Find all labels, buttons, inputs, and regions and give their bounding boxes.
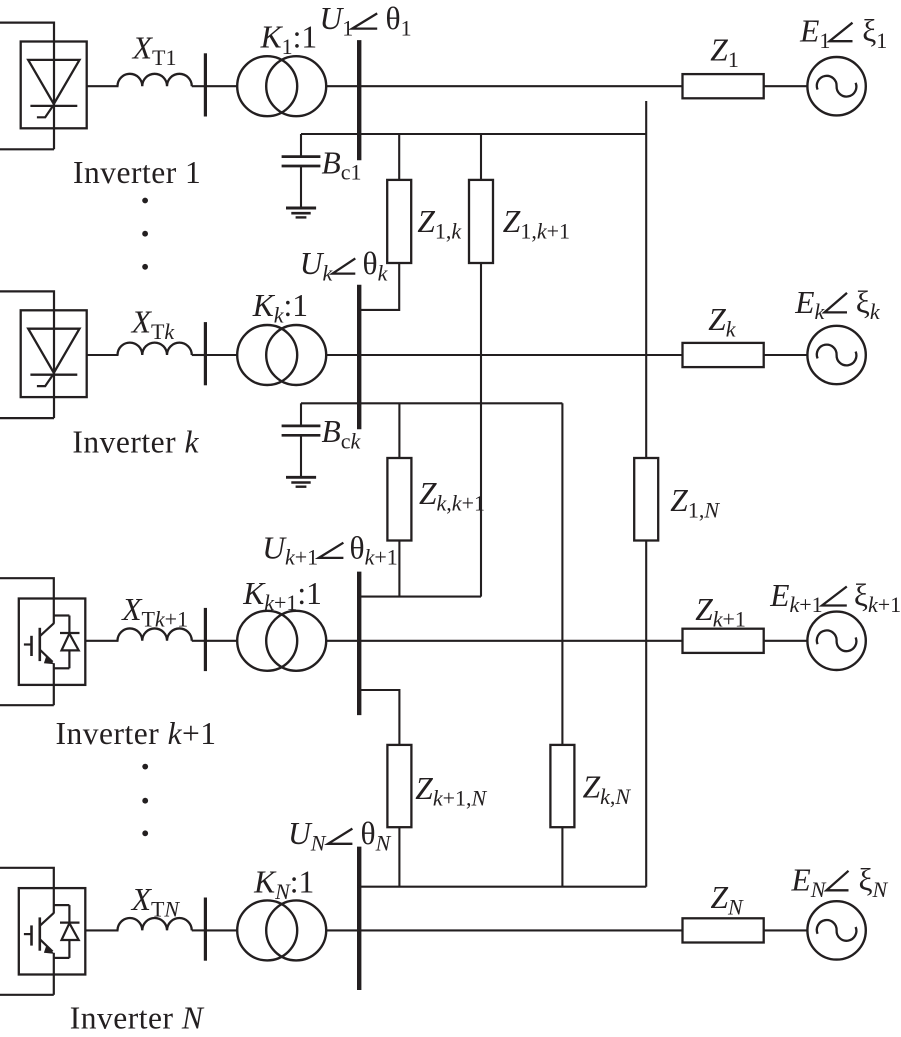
angle symbol (E1) [830,23,853,42]
AC source Ek [807,326,865,384]
wire: Z1 to source E1 [764,85,808,87]
impedance Zk,N box [550,745,574,827]
svg-text:ZN: ZN [711,880,745,919]
wire: inverter k output to reactor [87,354,119,356]
reactor XTk coil [118,343,192,355]
svg-text:EN: EN [791,863,827,902]
wire: ZN to source EN [764,929,808,931]
connection tick bar (row k) [204,322,207,385]
svg-text:Inverter N: Inverter N [70,1000,205,1035]
svg-text:Bc1: Bc1 [322,145,362,184]
wire: Zk to source Ek [764,354,808,356]
connection tick bar (row N) [204,898,207,961]
angle symbol (Ek) [825,293,848,313]
thyristor (inverter 1) [28,60,79,117]
bus UN (busbar) [357,847,361,990]
svg-text:Z1,N: Z1,N [670,483,720,522]
transformer KN (two windings) [237,900,297,960]
svg-text:XTN: XTN [130,882,181,921]
shunt capacitor Bck [300,403,302,426]
inverter N box [19,888,86,974]
anti-parallel diode (inverter k+1) [54,616,80,669]
anti-parallel diode (inverter N) [54,905,80,958]
wire: Z1,N down to row-N sub-bus [645,541,647,887]
wire: Z1,k+1 down to bus Uk+1 jog [480,263,482,597]
svg-text:θk+1: θk+1 [350,530,398,569]
bus Uk+1 (busbar) [357,572,361,716]
wire: transformer KN to bus [326,929,360,931]
wire: transformer K1 to bus [326,85,360,87]
wire: inverter N output to reactor [85,929,118,931]
reactor XTN coil [118,918,192,930]
svg-text:U1: U1 [320,1,354,40]
svg-text:ξ1: ξ1 [862,14,887,53]
impedance Zk+1 box [683,629,764,653]
angle symbol (Ek+1) [822,587,847,606]
impedance Z1,k box [387,180,411,263]
wire: Zk,k+1 down to bus Uk+1 jog [398,541,400,597]
angle symbol (Uk) [333,258,356,273]
wire: jog into bus Uk+1 (connects Zk,k+1 and Z1,k+1) [359,596,481,598]
svg-text:UN: UN [288,816,327,855]
wire: reactor to tick (row Tk+1) [192,640,206,642]
svg-text:θ1: θ1 [386,1,412,40]
wire: transformer Kk to bus [326,354,360,356]
wire: transformer Kk+1 to bus [326,640,360,642]
svg-text:Zk,k+1: Zk,k+1 [419,476,485,515]
connection tick bar (row k+1) [204,608,207,671]
svg-text:Uk: Uk [300,246,334,285]
wire: reactor to tick (row T1) [192,85,206,87]
bus U1 (busbar) [357,40,361,160]
AC source EN [807,901,865,959]
wire: bus to impedance Z1 [359,85,682,87]
ground (Bck) [286,476,316,479]
svg-text:ξN: ξN [859,863,889,902]
wire: inverter k+1 output to reactor [85,640,118,642]
bus Uk (busbar) [357,285,361,430]
svg-text:K1:1: K1:1 [260,20,318,59]
angle symbol (U1) [352,13,377,28]
wire: tick to transformer (row N) [205,929,237,931]
inverter 1 DC-side wire loop [0,23,54,150]
impedance Zk,k+1 box [387,458,411,541]
svg-text:Inverter 1: Inverter 1 [73,155,201,190]
wire: Zk+1,N down to row-N sub-bus [398,827,400,887]
AC source E1 [807,57,865,115]
svg-text:XTk+1: XTk+1 [120,592,188,631]
wire: bus Uk+1 jog down to Zk+1,N [359,690,399,745]
transformer K1 (two windings) [237,56,297,116]
sine symbol inside source EN [817,920,857,941]
svg-text:Bck: Bck [322,414,362,453]
svg-text:ξk+1: ξk+1 [854,578,901,617]
svg-text:Kk:1: Kk:1 [252,288,308,327]
svg-text:Z1: Z1 [710,32,739,71]
connection tick bar (row 1) [204,53,207,116]
svg-text:KN:1: KN:1 [253,864,314,903]
inverter k DC-side wire loop [0,291,54,418]
inverter k box [21,310,87,397]
svg-text:Kk+1:1: Kk+1:1 [242,576,322,615]
ellipsis dots between inverter 1 and inverter k [142,198,148,204]
svg-text:Zk+1,N: Zk+1,N [415,771,487,810]
svg-text:E1: E1 [799,14,830,53]
sine symbol inside source Ek+1 [817,630,857,651]
IGBT (inverter k+1) [24,623,55,664]
wire: reactor to tick (row Tk) [192,354,206,356]
svg-text:Ek+1: Ek+1 [769,578,822,617]
reactor XT1 coil [118,74,192,86]
wire: inverter 1 output to reactor [87,85,119,87]
wire: reactor to tick (row TN) [192,929,206,931]
wire: Zk+1 to source Ek+1 [764,640,808,642]
ellipsis dots between inverter k+1 and inverter N [142,764,148,770]
svg-text:ξk: ξk [856,285,881,324]
angle symbol (UN) [328,829,352,844]
wire: Zk,N down to row-N sub-bus [561,827,563,887]
inverter k+1 box [19,599,86,685]
sine symbol inside source E1 [817,76,857,97]
wire: tick to transformer (row 1) [205,85,237,87]
wire: bus to impedance Zk [359,354,682,356]
svg-text:Uk+1: Uk+1 [262,530,318,569]
transformer Kk+1 (two windings) [237,611,297,671]
reactor XTk+1 coil [118,628,192,640]
svg-text:Z1,k: Z1,k [417,204,462,243]
wire: sub-bus to Z1,k [398,134,400,180]
svg-text:Inverter k: Inverter k [72,424,199,459]
wire: bus to impedance ZN [359,929,682,931]
wire: bus to impedance Zk+1 [359,640,682,642]
node: row-1 sub-bus wire [301,133,646,135]
node: row-k sub-bus wire [301,402,562,404]
angle symbol (EN) [827,871,849,891]
thyristor (inverter k) [28,329,79,386]
ground (Bc1) [286,207,316,210]
svg-text:XT1: XT1 [131,31,177,70]
angle symbol (Uk+1) [319,543,344,558]
wire: Z1,N riser from row-1 feeder [645,101,647,458]
svg-text:Inverter k+1: Inverter k+1 [56,716,217,751]
IGBT (inverter N) [24,913,55,954]
wire: sub-bus to Z1,k+1 [480,134,482,180]
wire: row-k sub-bus corner down to Zk,N [561,403,563,745]
wire: row-k sub-bus to Zk,k+1 [398,403,400,458]
transformer Kk (two windings) [237,325,297,385]
node: row-N sub-bus wire [357,886,646,888]
inverter k+1 DC-side wire loop [0,578,54,624]
sine symbol inside source Ek [817,345,857,366]
inverter N DC-side wire loop [0,868,54,914]
wire: tick to transformer (row k) [205,354,237,356]
svg-text:θk: θk [363,246,389,285]
svg-text:Z1,k+1: Z1,k+1 [503,204,570,243]
svg-text:Zk: Zk [708,302,737,341]
svg-text:Ek: Ek [794,285,825,324]
inverter 1 box [21,42,87,129]
svg-text:Zk,N: Zk,N [583,770,632,809]
impedance Z1,N box [634,458,658,541]
impedance Z1,k+1 box [469,180,493,263]
AC source Ek+1 [807,612,865,670]
impedance Zk+1,N box [387,745,411,827]
impedance Z1 box [683,74,764,98]
wire: tick to transformer (row k+1) [205,640,237,642]
wire: Z1,k to bus Uk (jog) [359,263,399,310]
svg-text:Zk+1: Zk+1 [695,592,746,631]
svg-text:XTk: XTk [130,304,176,343]
impedance ZN box [683,918,764,942]
shunt capacitor Bc1 [300,134,302,157]
impedance Zk box [683,343,764,367]
